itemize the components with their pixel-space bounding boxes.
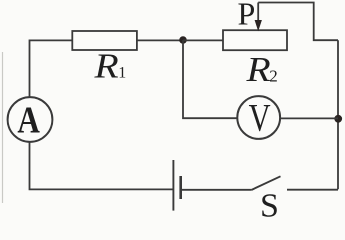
faint scan streak left edge (2, 52, 4, 203)
wire R1 to node A (137, 39, 183, 41)
svg-text:V: V (249, 96, 271, 139)
wire wiper to right side (jog) (258, 3, 338, 41)
node B junction dot (334, 115, 342, 123)
svg-text:R: R (93, 48, 118, 86)
wire ammeter to bottom-left corner and bottom wire to battery (30, 142, 173, 190)
wire battery to switch (182, 189, 252, 191)
svg-text:R: R (245, 51, 270, 89)
resistor R1 (72, 31, 137, 50)
wire voltmeter to node B (280, 117, 338, 119)
switch S blade (251, 176, 280, 190)
rheostat R2 (223, 30, 287, 50)
wiper arrow P (257, 3, 259, 22)
wire switch to bottom-right corner (287, 189, 338, 191)
svg-text:S: S (260, 188, 279, 220)
svg-text:A: A (17, 98, 40, 141)
svg-text:1: 1 (118, 65, 126, 82)
wire node A down to voltmeter (183, 40, 237, 118)
wire right vertical (337, 40, 339, 189)
svg-text:P: P (238, 0, 256, 32)
battery long plate (172, 160, 174, 211)
wire top-left: left vertical up and top horizontal to R1 (30, 40, 73, 97)
svg-text:2: 2 (269, 67, 278, 86)
wire node A to R2 (183, 39, 223, 41)
voltmeter V1 (237, 96, 280, 139)
battery short plate (179, 176, 182, 199)
ammeter A1 (8, 97, 53, 142)
node A junction dot (179, 36, 187, 44)
